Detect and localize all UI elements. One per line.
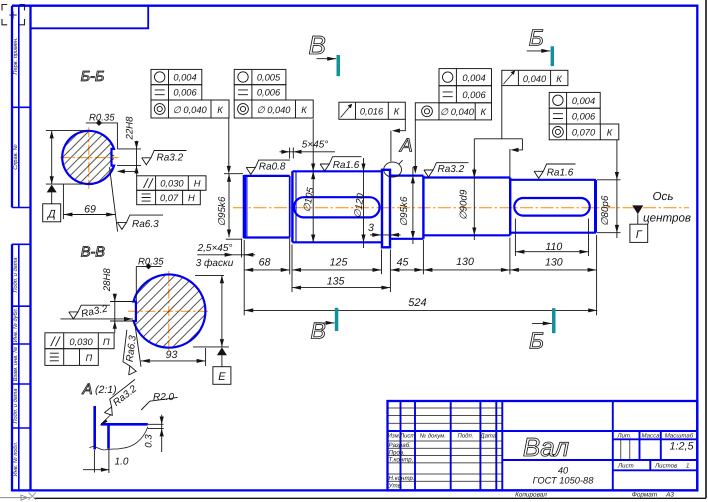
svg-text:0,030: 0,030 (160, 179, 184, 189)
section mark V bottom (335, 308, 339, 331)
svg-text:∅ 0,040: ∅ 0,040 (257, 105, 292, 115)
chamfer edge tick lines (224, 173, 243, 175)
svg-text:1:2,5: 1:2,5 (669, 441, 694, 453)
datum E tangent lines (193, 275, 229, 347)
section B-B centerlines (60, 127, 119, 189)
svg-text:Масштаб: Масштаб (665, 432, 694, 439)
sheet row (617, 463, 689, 470)
svg-text:Вал: Вал (523, 432, 570, 462)
svg-text:В-В: В-В (81, 244, 106, 260)
svg-text:0.3: 0.3 (143, 434, 154, 448)
svg-text:Ra1.6: Ra1.6 (333, 160, 360, 171)
svg-text:К: К (556, 74, 562, 84)
svg-text:∅80p6: ∅80p6 (600, 195, 611, 226)
dim 22H8 (136, 141, 138, 174)
svg-text:0,006: 0,006 (462, 90, 486, 100)
roughness Ra1.6 on S2 (320, 157, 361, 171)
fcf stack 4 leader (414, 120, 416, 166)
roughness Ra0.8 on S1 (246, 160, 290, 174)
dim 1.0 (93, 450, 95, 473)
dim 135 (292, 287, 390, 289)
svg-text:40: 40 (558, 466, 569, 476)
dim 524 (244, 309, 597, 311)
fcf stack 2 (234, 69, 313, 118)
svg-text:П: П (86, 353, 93, 363)
fcf parallel 0.030 H (137, 176, 206, 191)
title block thin rows lower (388, 441, 503, 481)
svg-text:∅120: ∅120 (352, 192, 366, 219)
svg-text:3 фаски: 3 фаски (196, 258, 234, 269)
svg-text:Дата: Дата (479, 432, 496, 439)
svg-text:∅ 0,040: ∅ 0,040 (173, 105, 208, 115)
svg-text:Н: Н (188, 193, 195, 203)
detail A break wavy line (90, 447, 122, 450)
dim 28H8 (114, 294, 116, 333)
dim 125 (292, 269, 382, 271)
main inner frame left line (29, 6, 31, 491)
svg-text:Г: Г (636, 229, 643, 241)
svg-text:Ra3.2: Ra3.2 (80, 303, 109, 320)
roughness Ra6.3 rotated leader (135, 322, 141, 367)
svg-text:Перв. примен.: Перв. примен. (13, 37, 19, 74)
svg-text:524: 524 (408, 297, 426, 309)
svg-text:Т.контр.: Т.контр. (389, 457, 414, 464)
dim 110 keyway (515, 251, 588, 253)
svg-text:130: 130 (545, 257, 563, 269)
dim d90d9 (473, 168, 475, 240)
shaft section S1 outline (244, 176, 290, 238)
title block header texts (388, 432, 497, 439)
svg-text:93: 93 (166, 349, 178, 361)
keyway slot on S2 (294, 197, 380, 217)
svg-text:Подп.: Подп. (458, 432, 474, 439)
svg-text:0,005: 0,005 (257, 72, 281, 82)
svg-text:Н.контр.: Н.контр. (389, 475, 415, 482)
title block blue verticals (401, 401, 661, 490)
section B-B hatched disc with keyway (62, 131, 114, 184)
fcf stack 1 leader (228, 118, 230, 166)
detail A surface (101, 423, 148, 426)
svg-text:R2.0: R2.0 (153, 392, 175, 403)
shaft S5 right end face (594, 180, 597, 233)
svg-text:1: 1 (686, 463, 689, 470)
shaft S1 end face (289, 176, 291, 238)
svg-text:центров: центров (643, 211, 691, 224)
fold mark cross (29, 493, 37, 500)
svg-text:Ra3.2: Ra3.2 (157, 152, 184, 163)
shaft section S2 chamfer line (295, 171, 297, 242)
svg-text:Пров.: Пров. (389, 449, 405, 456)
fold mark arrow (21, 495, 28, 500)
keyway extension lines (110, 302, 134, 322)
datum G axis of centers (632, 205, 643, 214)
shaft section S1 d95k6 left face (243, 175, 246, 238)
roughness Ra3.2 symbol (69, 305, 110, 319)
dim 3 groove (370, 234, 381, 236)
svg-text:∅105: ∅105 (302, 186, 317, 213)
shaft section S5 d80p6 outline (510, 180, 596, 233)
Lit cell thin dividers (621, 439, 630, 460)
roughness Ra3.2 on S4 (424, 163, 469, 177)
svg-text:Подп. и дата: Подп. и дата (12, 388, 19, 423)
svg-text:Ось: Ось (653, 190, 674, 203)
svg-text:П: П (103, 337, 110, 347)
svg-text:130: 130 (456, 256, 474, 268)
svg-text:К: К (217, 105, 223, 115)
shaft section S2 d120 left shoulder (291, 171, 293, 242)
svg-text:Ra0.8: Ra0.8 (259, 162, 286, 173)
dim d120 (363, 158, 365, 248)
datum D tangent lines (46, 131, 88, 185)
svg-text:Утв.: Утв. (388, 482, 403, 489)
svg-text:Б-Б: Б-Б (81, 69, 105, 85)
svg-text:Лист: Лист (617, 463, 634, 470)
svg-text:69: 69 (84, 203, 96, 215)
datum E symbol (217, 347, 227, 355)
svg-text:К: К (607, 128, 613, 138)
svg-text:125: 125 (330, 257, 348, 269)
svg-text:0,004: 0,004 (462, 73, 485, 83)
svg-text:28Н8: 28Н8 (102, 268, 113, 293)
dim 93 (141, 360, 206, 362)
left margin stamp column boxes (12, 6, 31, 491)
roughness Ra3.2 keyway (142, 151, 187, 165)
svg-text:135: 135 (327, 275, 345, 287)
svg-text:К: К (301, 105, 307, 115)
roughness Ra6.3 (117, 215, 163, 229)
svg-text:∅95k6: ∅95k6 (399, 196, 410, 226)
svg-text:Подп. и дата: Подп. и дата (12, 257, 19, 292)
svg-text:Справ. №: Справ. № (13, 144, 19, 169)
dim 68 (244, 269, 290, 271)
svg-text:0,040: 0,040 (523, 74, 547, 84)
svg-text:Ra6.3: Ra6.3 (125, 334, 139, 362)
svg-text:Разраб.: Разраб. (389, 442, 411, 449)
keyway slot on S5 (514, 198, 589, 216)
fcf parallel 0.030 P (45, 333, 114, 349)
section V-V hatched disc with keyway (134, 274, 206, 347)
fcf stack 1 (151, 69, 229, 118)
svg-text:0,07: 0,07 (160, 193, 179, 203)
fcf symmetry P (45, 349, 98, 366)
svg-text:0,030: 0,030 (69, 337, 93, 347)
svg-text:Ra1.6: Ra1.6 (547, 168, 574, 179)
dim 0.3 (161, 415, 163, 452)
svg-text:Взам. инв. №: Взам. инв. № (13, 347, 19, 382)
fcf symmetry 0.07 H (137, 190, 201, 204)
svg-text:0,004: 0,004 (572, 96, 595, 106)
detail A groove profile arc (121, 427, 148, 449)
dim 45 (390, 269, 423, 271)
svg-text:Копировал: Копировал (515, 492, 547, 499)
fcf single runout 0.040 (502, 70, 568, 85)
svg-text:Листов: Листов (654, 463, 677, 470)
shaft section S2 outline (292, 171, 381, 242)
svg-text:0,070: 0,070 (572, 128, 596, 138)
title block outer (388, 401, 698, 490)
left margin labels (12, 37, 19, 476)
svg-text:В: В (309, 30, 326, 60)
shaft S3/S4 shoulder (422, 176, 424, 239)
fcf stack 4 (415, 69, 491, 120)
svg-text:1.0: 1.0 (115, 457, 129, 468)
leader to fcf H frames (120, 171, 137, 175)
dim d95k6 S3 (412, 167, 414, 244)
corner fiducial cross (9, 11, 16, 18)
title block thin rows upper (388, 408, 503, 423)
svg-text:(2:1): (2:1) (95, 384, 117, 396)
detail A groove second wall (107, 425, 110, 449)
svg-text:2,5×45°: 2,5×45° (197, 243, 233, 254)
datum E dimension line (221, 275, 223, 347)
svg-text:3: 3 (368, 222, 374, 234)
svg-text:Б: Б (529, 327, 544, 353)
svg-text:Лит.: Лит. (616, 432, 631, 439)
svg-text:Ra6.3: Ra6.3 (132, 219, 159, 230)
svg-text:0,006: 0,006 (257, 88, 281, 98)
svg-text:∅90d9: ∅90d9 (458, 189, 469, 220)
shaft section S1 chamfer line (246, 176, 248, 236)
top-left reversed stamp field (31, 6, 149, 29)
title block blue horizontals (388, 431, 698, 470)
svg-text:0,006: 0,006 (173, 88, 197, 98)
svg-text:Инв. № дубл.: Инв. № дубл. (12, 308, 19, 342)
dim d80p6 (597, 140, 621, 238)
svg-text:0,006: 0,006 (572, 112, 596, 122)
right header labels (616, 432, 693, 439)
svg-text:68: 68 (259, 257, 271, 269)
detail A indicator tick (399, 160, 403, 164)
svg-text:R0.35: R0.35 (138, 257, 164, 268)
paper edge black border bottom (34, 497, 706, 499)
svg-text:0,004: 0,004 (173, 72, 196, 82)
fold mark gray line bottom-left (0, 497, 30, 499)
roughness Ra3.2 keyway leader (60, 318, 133, 320)
roughness Ra6.3 rotated (121, 330, 141, 376)
svg-text:В: В (311, 318, 326, 344)
roughness Ra3.2 detail (100, 379, 144, 418)
center axis (233, 207, 689, 209)
detail A shoulder face wall (93, 406, 96, 450)
dim 130 first (423, 269, 510, 271)
extension lines (244, 219, 596, 316)
svg-text:45: 45 (397, 257, 409, 269)
svg-text:А: А (82, 381, 93, 398)
svg-text:R0.35: R0.35 (89, 113, 115, 124)
dim 130 second (510, 269, 597, 271)
shaft S4/S5 shoulder (509, 178, 511, 236)
fcf 0.016 leader (397, 119, 405, 130)
svg-text:Лист: Лист (399, 432, 415, 439)
svg-text:∅95k6: ∅95k6 (217, 196, 228, 226)
paper edge black border right (705, 0, 707, 498)
shaft section S3 d95k6 outline (390, 176, 423, 239)
shaft section S4 d90d9 outline (423, 178, 510, 236)
svg-text:Ra3.2: Ra3.2 (438, 164, 465, 175)
keyway corner fillet marks (110, 154, 114, 160)
svg-text:А3: А3 (665, 492, 674, 499)
svg-text:Д: Д (46, 208, 56, 220)
dim d105 with leader from frame (312, 119, 314, 242)
svg-text:К: К (394, 107, 400, 117)
svg-text:К: К (481, 107, 487, 117)
title block row labels (388, 442, 415, 489)
svg-text:А: А (399, 136, 413, 157)
svg-text:Изм.: Изм. (388, 432, 401, 439)
section V-V centerlines (128, 271, 209, 352)
relief groove (382, 170, 390, 248)
dim d95k6 S1 (228, 174, 230, 237)
svg-text:5×45°: 5×45° (302, 140, 329, 151)
svg-text:Б: Б (529, 25, 544, 51)
fcf 0.040 leader T-split (474, 86, 522, 170)
svg-text:ГОСТ 1050-88: ГОСТ 1050-88 (533, 476, 595, 486)
svg-text:№ докум.: № докум. (420, 432, 446, 439)
svg-text:22Н8: 22Н8 (125, 116, 136, 141)
fcf single runout 0.016 (339, 102, 405, 119)
roughness Ra6.3 leader line (110, 167, 118, 231)
svg-text:110: 110 (545, 241, 562, 253)
svg-text:Формат: Формат (632, 492, 658, 499)
section mark B bottom (552, 308, 556, 333)
datum D dimension line (51, 131, 53, 185)
svg-text:Масса: Масса (641, 432, 660, 439)
detail A indicator circle (384, 162, 402, 177)
svg-text:∅ 0,040: ∅ 0,040 (440, 107, 475, 117)
roughness leader arrow (102, 415, 111, 424)
dim 69 (62, 184, 64, 219)
detail A surface extensions (148, 424, 164, 428)
svg-text:Н: Н (194, 179, 201, 189)
roughness Ra1.6 on S5 (534, 164, 575, 178)
fcf stack 6 (549, 92, 619, 139)
keyway extension lines (117, 149, 141, 166)
datum D symbol (47, 185, 57, 193)
svg-text:Е: Е (218, 371, 226, 383)
corner fiducial brackets (2, 5, 25, 25)
svg-text:0,016: 0,016 (360, 107, 384, 117)
svg-text:Инв. № подл.: Инв. № подл. (12, 442, 19, 477)
